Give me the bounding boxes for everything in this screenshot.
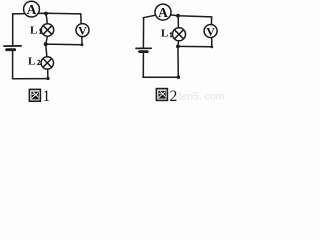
junction node mid-right 图1 xyxy=(80,43,83,46)
junction node mid-right 图2 xyxy=(210,45,213,48)
svg-text:A: A xyxy=(158,5,168,20)
voltmeter V2 图2 xyxy=(204,25,217,38)
battery B1 short plate xyxy=(7,48,15,51)
label 图1 caption glyph xyxy=(29,89,40,101)
voltmeter V1 图1 xyxy=(76,24,89,37)
svg-text:ifen5. com: ifen5. com xyxy=(176,91,225,103)
label 图2 caption glyph xyxy=(156,89,167,101)
wire left vertical 图2 xyxy=(142,18,144,48)
wire top 图2 xyxy=(143,15,211,18)
junction node mid-left 图1 xyxy=(44,42,48,46)
junction node top 图1 xyxy=(44,12,48,16)
wire L1 bottom lead 图2 xyxy=(177,41,180,47)
svg-text:L: L xyxy=(161,28,168,40)
wire mid horizontal 图2 xyxy=(178,45,212,47)
wire L2 bottom lead 图1 xyxy=(47,69,49,79)
battery B2 short plate xyxy=(140,50,148,53)
wire L1 top lead 图1 xyxy=(46,13,47,24)
wire voltmeter bottom lead 图2 xyxy=(211,37,213,46)
battery B2 long plate xyxy=(136,47,151,49)
junction node bottom-right 图2 xyxy=(177,76,180,79)
lamp L1 图1 xyxy=(41,24,53,36)
junction node bottom-right 图1 xyxy=(46,77,49,80)
ammeter A1 circle 图1 xyxy=(24,1,40,17)
wire voltmeter bottom lead 图1 xyxy=(81,36,83,44)
wire left vertical 图1 xyxy=(12,14,14,46)
wire junction to L2 图1 xyxy=(46,44,47,57)
wire L1 bottom lead 图1 xyxy=(46,36,48,44)
battery bottom lead 图1 xyxy=(12,51,14,79)
junction node mid-left 图2 xyxy=(176,45,180,49)
svg-text:V: V xyxy=(206,25,215,39)
wire top 图1 xyxy=(13,12,81,15)
wire right vertical to voltmeter 图1 xyxy=(80,14,82,24)
lamp L1 图2 xyxy=(173,28,186,41)
wire right vertical to voltmeter 图2 xyxy=(211,17,213,25)
svg-text:A: A xyxy=(27,2,37,17)
wire mid horizontal 图1 xyxy=(46,43,82,46)
junction node top 图2 xyxy=(176,14,180,18)
svg-text:L: L xyxy=(30,24,37,36)
svg-text:L: L xyxy=(28,55,35,67)
svg-text:1: 1 xyxy=(43,88,51,104)
battery B1 long plate xyxy=(4,45,21,47)
lamp L2 图1 xyxy=(41,57,53,69)
wire junction down 图2 xyxy=(177,46,179,77)
wire bottom 图2 xyxy=(143,76,179,78)
wire L1 top lead 图2 xyxy=(177,16,179,28)
battery bottom lead 图2 xyxy=(142,53,144,78)
svg-text:V: V xyxy=(78,24,87,38)
ammeter A2 circle 图2 xyxy=(155,4,171,20)
wire bottom 图1 xyxy=(13,78,48,80)
